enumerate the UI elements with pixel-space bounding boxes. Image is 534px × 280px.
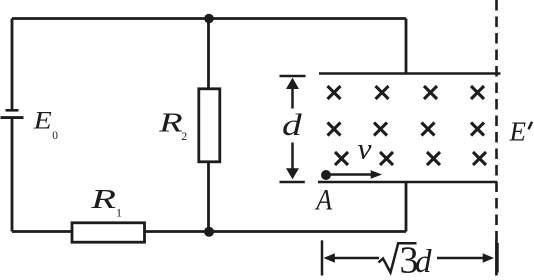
svg-text:d: d bbox=[282, 107, 302, 142]
svg-text:R: R bbox=[158, 108, 183, 138]
svg-text:2: 2 bbox=[181, 129, 187, 143]
svg-text:v: v bbox=[358, 132, 372, 165]
svg-text:0: 0 bbox=[52, 130, 58, 142]
svg-text:E: E bbox=[509, 117, 527, 147]
svg-text:R: R bbox=[90, 184, 116, 214]
svg-text:1: 1 bbox=[116, 206, 122, 220]
svg-text:E: E bbox=[33, 106, 52, 133]
svg-text:A: A bbox=[314, 184, 333, 217]
svg-text:3: 3 bbox=[400, 240, 419, 280]
